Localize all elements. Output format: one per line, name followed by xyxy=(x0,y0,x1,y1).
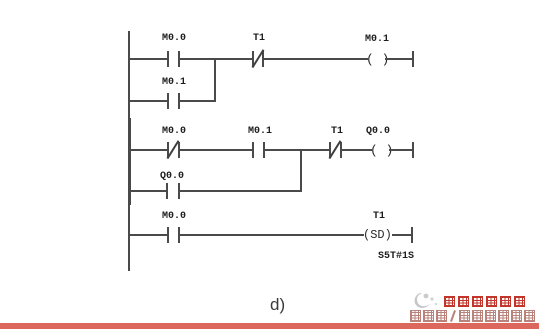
contact M0.0 left bar xyxy=(167,51,169,67)
wire rung2 rail to M0.0 xyxy=(130,149,168,151)
label Q0.0 branch xyxy=(160,171,184,182)
contact M0.0 left bar n3 xyxy=(167,227,169,243)
contact M0.0 right bar xyxy=(178,51,180,67)
watermark line 1: 电工电气学习 (red) xyxy=(444,296,525,314)
label T1 network3 xyxy=(373,211,385,222)
label M0.0 network2 xyxy=(162,126,186,137)
contact M0.1 left bar n2 xyxy=(252,142,254,158)
contact Q0.0 right bar xyxy=(178,183,180,199)
contact M0.1 right bar n2 xyxy=(263,142,265,158)
right terminal rung1 xyxy=(412,51,414,67)
label T1 network2 xyxy=(331,126,343,137)
wire T1 to coil Q0.0 xyxy=(342,149,372,151)
label M0.1 network2 xyxy=(248,126,272,137)
left power rail network 2 thick segment xyxy=(128,118,131,205)
contact Q0.0 left bar xyxy=(166,183,168,199)
coil Q0.0 parens xyxy=(370,143,393,158)
contact M0.0 NC slash xyxy=(167,140,179,159)
wire coil to right terminal xyxy=(385,58,413,60)
branch wire rail to M0.1 contact xyxy=(130,100,168,102)
label M0.1 coil xyxy=(365,34,389,45)
wire M0.1 to T1 n2 xyxy=(265,149,330,151)
label M0.1 branch xyxy=(162,77,186,88)
coil M0.1 parens xyxy=(366,52,389,67)
branch wire Q0.0 to junction xyxy=(180,190,302,192)
node junction rung1 branch xyxy=(214,58,216,102)
label M0.0 network3 xyxy=(162,211,186,222)
wire M0.0 to M0.1 xyxy=(180,149,252,151)
node junction rung2 branch xyxy=(300,149,302,192)
left power rail network 1-3 xyxy=(128,31,130,271)
label T1 xyxy=(253,33,265,44)
contact M0.0 NC right bar xyxy=(178,142,180,158)
contact M0.0 NC left bar xyxy=(167,142,169,158)
wire M0.0 to T1 xyxy=(180,58,253,60)
contact T1 left bar n2 xyxy=(329,142,331,158)
value label S5T#1S xyxy=(378,251,414,262)
caption d) xyxy=(270,295,285,315)
watermark line 2: 头条号/全球电气资源 (gray-red) xyxy=(410,310,535,328)
wire rung1 rail to M0.0 xyxy=(130,58,168,60)
contact T1 NC slash xyxy=(252,49,264,68)
label Q0.0 coil xyxy=(366,126,390,137)
contact T1 NC slash n2 xyxy=(329,140,341,159)
contact T1 left bar xyxy=(252,51,254,67)
wire T1 to coil M0.1 xyxy=(264,58,368,60)
wire coil Q0.0 to terminal xyxy=(389,149,414,151)
watermark logo xyxy=(411,291,441,311)
contact T1 right bar n2 xyxy=(340,142,342,158)
wire SD coil to terminal xyxy=(392,234,413,236)
contact T1 right bar xyxy=(262,51,264,67)
branch wire rail to Q0.0 contact xyxy=(130,190,167,192)
footer red bar xyxy=(0,323,539,329)
contact M0.1 left bar xyxy=(167,93,169,109)
contact M0.1 right bar xyxy=(178,93,180,109)
right terminal rung2 xyxy=(412,142,414,158)
label M0.0 xyxy=(162,33,186,44)
wire rung3 rail to M0.0 xyxy=(130,234,168,236)
branch wire M0.1 to junction xyxy=(180,100,216,102)
wire M0.0 to SD coil xyxy=(180,234,364,236)
contact M0.0 right bar n3 xyxy=(178,227,180,243)
coil T1 SD xyxy=(363,228,392,242)
right terminal rung3 xyxy=(411,227,413,243)
